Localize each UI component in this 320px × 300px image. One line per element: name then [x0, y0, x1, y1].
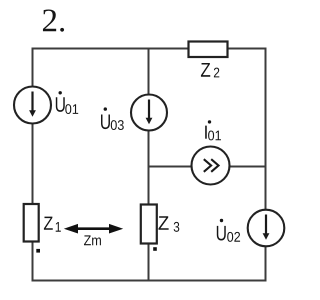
wire: right rail — [265, 48, 267, 282]
voltage source U03 — [131, 95, 167, 131]
resistor Z2 — [189, 42, 228, 58]
resistor Z3 — [141, 205, 157, 244]
coupling dot below Z3 — [153, 247, 157, 251]
voltage source U01 — [14, 87, 51, 124]
label I01 — [205, 120, 221, 140]
wire: top horizontal — [33, 48, 266, 50]
current source I01 — [192, 147, 230, 185]
label U03 — [101, 107, 124, 130]
wire: left rail — [32, 48, 34, 282]
label Z1 — [44, 217, 61, 232]
label Zm — [84, 235, 101, 245]
label Z2 — [201, 63, 219, 77]
wire: bottom horizontal — [33, 280, 266, 282]
label U01 — [56, 91, 78, 114]
resistor Z1 — [24, 204, 39, 242]
mutual coupling arrow Zm — [64, 224, 123, 234]
voltage source U02 — [248, 210, 285, 247]
wire: middle rail — [148, 49, 150, 281]
title numeral 2. — [43, 9, 64, 31]
wire: I01 branch horizontal — [149, 166, 266, 168]
coupling dot below Z1 — [36, 249, 40, 253]
label U02 — [217, 219, 240, 242]
label Z3 — [158, 216, 179, 232]
